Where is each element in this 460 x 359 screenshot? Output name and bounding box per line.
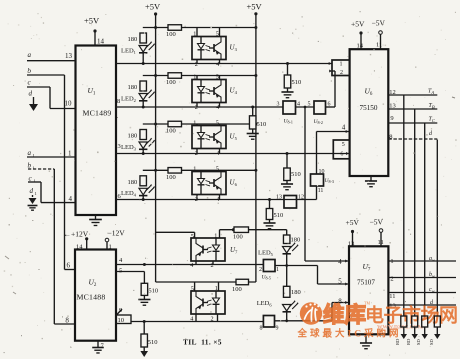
svg-text:14: 14: [76, 244, 83, 251]
svg-text:维库: 维库: [323, 302, 366, 327]
svg-text:180: 180: [291, 237, 301, 244]
wire b to U2 pin 6: [64, 75, 66, 270]
svg-text:TA: TA: [428, 89, 434, 96]
svg-text:4: 4: [297, 102, 300, 108]
svg-text:6: 6: [340, 152, 343, 158]
LED3 indicator: [139, 142, 147, 149]
svg-text:11: 11: [378, 239, 384, 246]
svg-text:11: 11: [318, 188, 324, 194]
opto U8 collector feed wire: [156, 281, 256, 283]
svg-text:13: 13: [65, 52, 73, 60]
svg-text:6: 6: [67, 262, 71, 270]
optocoupler U8 TIL117: [191, 291, 225, 314]
svg-text:11: 11: [389, 293, 395, 300]
svg-text:180: 180: [128, 36, 138, 43]
U1 ground pin: [95, 215, 97, 220]
svg-text:1: 1: [34, 179, 36, 184]
optocoupler U6 TIL117: [192, 172, 226, 195]
svg-text:5: 5: [342, 142, 345, 148]
channel d wire to optocoupler: [116, 199, 192, 201]
resistor 180 LED5 chain: [286, 230, 288, 235]
svg-text:180: 180: [128, 179, 138, 186]
channel b feed line: [143, 75, 256, 77]
svg-text:1: 1: [193, 74, 196, 81]
svg-text:510: 510: [274, 212, 284, 219]
svg-text:12: 12: [298, 195, 304, 201]
resistor 180 channel b: [140, 81, 147, 91]
resistor 180 LED6 chain: [286, 266, 288, 287]
LED1 indicator: [139, 46, 147, 53]
svg-text:1: 1: [340, 62, 343, 68]
svg-text:1: 1: [33, 166, 35, 171]
svg-text:b: b: [28, 162, 32, 170]
svg-text:9: 9: [390, 115, 393, 122]
channel b inverter output wire: [296, 106, 315, 108]
svg-text:100: 100: [166, 174, 176, 181]
svg-text:2: 2: [340, 70, 343, 76]
optocoupler U3 TIL117: [192, 37, 226, 60]
svg-text:a: a: [28, 149, 32, 157]
inverter U8-2: [314, 101, 326, 114]
svg-text:2: 2: [211, 316, 214, 323]
optocoupler U7 TIL117: [191, 238, 225, 261]
svg-text:TIL 11. ×5: TIL 11. ×5: [183, 338, 222, 347]
bus resistor A: [401, 316, 407, 327]
svg-text:14: 14: [357, 43, 364, 50]
svg-text:−5V: −5V: [372, 19, 386, 28]
svg-text:全球最大IC采购网: 全球最大IC采购网: [297, 328, 402, 340]
svg-text:510: 510: [257, 121, 267, 128]
svg-text:TB: TB: [429, 103, 435, 110]
optocoupler U4 TIL117: [192, 80, 226, 103]
resistor 180 channel c: [140, 130, 147, 140]
svg-text:13: 13: [276, 195, 282, 201]
opto U7 LED feed with resistor 100: [220, 229, 287, 231]
wire inverter U8-6 to 75107 pin 8: [275, 320, 333, 322]
svg-text:4: 4: [216, 61, 219, 68]
svg-text:11: 11: [376, 42, 382, 49]
svg-text:1: 1: [109, 244, 112, 251]
svg-text:5: 5: [216, 120, 219, 127]
svg-text:5: 5: [216, 166, 219, 173]
svg-text:2: 2: [259, 267, 262, 273]
resistor 100 channel a: [168, 25, 182, 31]
svg-text:MC1489: MC1489: [83, 109, 112, 118]
svg-text:180: 180: [128, 84, 138, 91]
svg-text:1: 1: [215, 285, 218, 292]
svg-text:bw: bw: [429, 272, 435, 279]
svg-text:2: 2: [195, 61, 198, 68]
svg-text:1: 1: [276, 267, 279, 273]
wire c1 to U1 pin 4: [40, 182, 42, 203]
svg-text:4: 4: [69, 195, 73, 203]
svg-text:4: 4: [190, 262, 193, 269]
svg-text:←+12V: ←+12V: [64, 230, 89, 239]
svg-text:1: 1: [68, 150, 72, 158]
svg-text:180: 180: [128, 133, 138, 140]
svg-text:510: 510: [148, 288, 158, 295]
svg-text:5: 5: [191, 233, 194, 240]
svg-text:U8-1: U8-1: [284, 119, 293, 125]
svg-text:U8-2: U8-2: [314, 119, 323, 125]
resistor 510 on channel c: [286, 154, 288, 169]
wire b1 to U2 pin 8: [53, 169, 55, 324]
svg-text:MC1488: MC1488: [77, 293, 106, 302]
svg-text:5: 5: [191, 285, 194, 292]
svg-text:100: 100: [166, 128, 176, 135]
svg-text:6: 6: [328, 102, 331, 108]
svg-text:14: 14: [97, 38, 105, 46]
bus resistor D: [434, 316, 440, 327]
optocoupler U5 TIL117: [192, 126, 226, 149]
LED4 indicator: [139, 188, 147, 195]
svg-text:1: 1: [193, 166, 196, 173]
channel c wire to 75150 pin 6: [192, 153, 350, 155]
svg-text:13: 13: [348, 240, 355, 247]
svg-text:510: 510: [292, 79, 302, 86]
svg-text:5: 5: [216, 74, 219, 81]
svg-text:8: 8: [117, 98, 120, 105]
channel a wire to optocoupler: [116, 63, 192, 65]
svg-text:SD: SD: [416, 338, 421, 345]
svg-text:SD: SD: [429, 338, 434, 345]
svg-text:4: 4: [190, 316, 193, 323]
paper specks: [5, 256, 16, 294]
svg-text:U8-3: U8-3: [325, 178, 334, 184]
IC 75107 line receiver: [349, 246, 388, 334]
svg-text:5: 5: [338, 278, 342, 286]
svg-text:1: 1: [193, 31, 196, 38]
inverter U8-6: [263, 316, 274, 328]
watermark logo circle: [297, 301, 458, 340]
svg-text:100: 100: [166, 31, 176, 38]
svg-text:1: 1: [193, 120, 196, 127]
LED5 indicator: [283, 247, 291, 254]
svg-text:3: 3: [277, 102, 280, 108]
resistor 510 on channel b: [252, 107, 254, 116]
svg-text:75107: 75107: [357, 279, 375, 287]
svg-text:d: d: [29, 90, 33, 98]
wire entry arrows at IC pins: [329, 62, 332, 65]
resistor 510 at U2 pin 5: [143, 272, 145, 284]
IC 75150 line driver: [350, 49, 389, 176]
IC U2 MC1488 driver: [75, 250, 116, 341]
channel d wire: [192, 199, 317, 201]
resistor 180 channel a: [140, 33, 147, 43]
svg-text:2: 2: [390, 276, 393, 283]
wire inverter to 75150 pin 4: [317, 131, 350, 133]
channel c feed line: [143, 123, 256, 125]
wire c to U1 pin 10: [49, 87, 51, 109]
svg-text:9: 9: [276, 326, 279, 332]
svg-text:−12V: −12V: [108, 229, 126, 238]
wire inverter U8-5 to 75107 pin 5: [275, 265, 318, 267]
75150 input notch pins 1 2: [332, 60, 350, 76]
svg-text:U8-5: U8-5: [262, 275, 271, 281]
bus line A vertical: [403, 95, 405, 316]
channel d feed line: [143, 169, 256, 171]
svg-text:100: 100: [232, 286, 242, 293]
svg-text:+5V: +5V: [84, 16, 100, 26]
svg-text:d: d: [30, 187, 34, 195]
channel a wire opto to 75150 pin 1: [192, 63, 332, 65]
svg-text:4: 4: [338, 258, 342, 266]
resistor 100 channel b: [168, 73, 182, 79]
svg-text:cw: cw: [429, 287, 435, 294]
svg-text:100: 100: [233, 234, 243, 241]
svg-text:+5V: +5V: [247, 2, 263, 12]
svg-text:10: 10: [319, 169, 325, 175]
bus line B vertical: [414, 109, 416, 316]
svg-text:aw: aw: [429, 256, 435, 263]
svg-text:TC: TC: [429, 117, 436, 124]
opto U7 collector feed wire: [156, 231, 195, 233]
svg-text:a: a: [28, 51, 32, 59]
channel b wire: [116, 106, 283, 108]
resistor 100 opto U8: [236, 279, 249, 285]
inverter U8-5: [263, 260, 275, 272]
channel a feed line: [143, 27, 256, 29]
svg-text:75150: 75150: [360, 104, 378, 112]
resistor 180 channel d: [140, 176, 147, 186]
bus line C vertical: [424, 123, 426, 316]
resistor 510 at U2 pin 10: [143, 322, 145, 335]
75150 ground: [370, 176, 372, 181]
inverter U8-3 vertical: [316, 186, 318, 200]
75107 ground: [365, 334, 367, 343]
resistor 100 channel c: [168, 121, 182, 127]
svg-text:+5V: +5V: [145, 2, 161, 12]
IC U1 MC1489 receiver: [76, 46, 117, 216]
wire channel b junction to 75107 pin 4: [304, 106, 307, 109]
svg-text:8: 8: [260, 326, 263, 332]
LED6 indicator: [283, 305, 291, 312]
svg-text:1: 1: [214, 232, 217, 239]
svg-text:8: 8: [65, 317, 69, 325]
svg-text:180: 180: [291, 289, 301, 296]
U2 ground pin 7: [97, 341, 99, 348]
svg-text:510: 510: [291, 171, 301, 178]
inverter U8-4 on channel d: [284, 196, 297, 209]
svg-text:1: 1: [35, 191, 37, 196]
svg-text:100: 100: [166, 79, 176, 86]
resistor 100 channel d: [168, 168, 182, 174]
inverter U8-1: [283, 101, 296, 114]
LED2 indicator: [139, 94, 147, 101]
svg-text:5: 5: [308, 102, 311, 108]
75150 notch pins 5 6: [333, 140, 349, 159]
svg-text:+5V: +5V: [351, 20, 365, 29]
channel c wire to optocoupler: [116, 153, 192, 155]
svg-text:RD: RD: [406, 338, 411, 345]
bus resistor B: [412, 316, 418, 327]
resistor 510 on channel d: [269, 200, 271, 209]
bus terminal labels: [395, 338, 434, 345]
svg-text:5: 5: [216, 31, 219, 38]
svg-text:−5V: −5V: [370, 218, 384, 227]
svg-text:4: 4: [342, 124, 346, 132]
bus resistor C: [422, 316, 428, 327]
wire into 75150 pin 2: [334, 71, 336, 107]
svg-text:10: 10: [65, 100, 73, 108]
svg-text:510: 510: [148, 339, 158, 346]
resistor 510 on channel a: [287, 64, 289, 76]
svg-text:RD: RD: [395, 338, 400, 345]
bus line D vertical: [436, 139, 438, 316]
U2 pin 10 output wire: [116, 315, 131, 324]
